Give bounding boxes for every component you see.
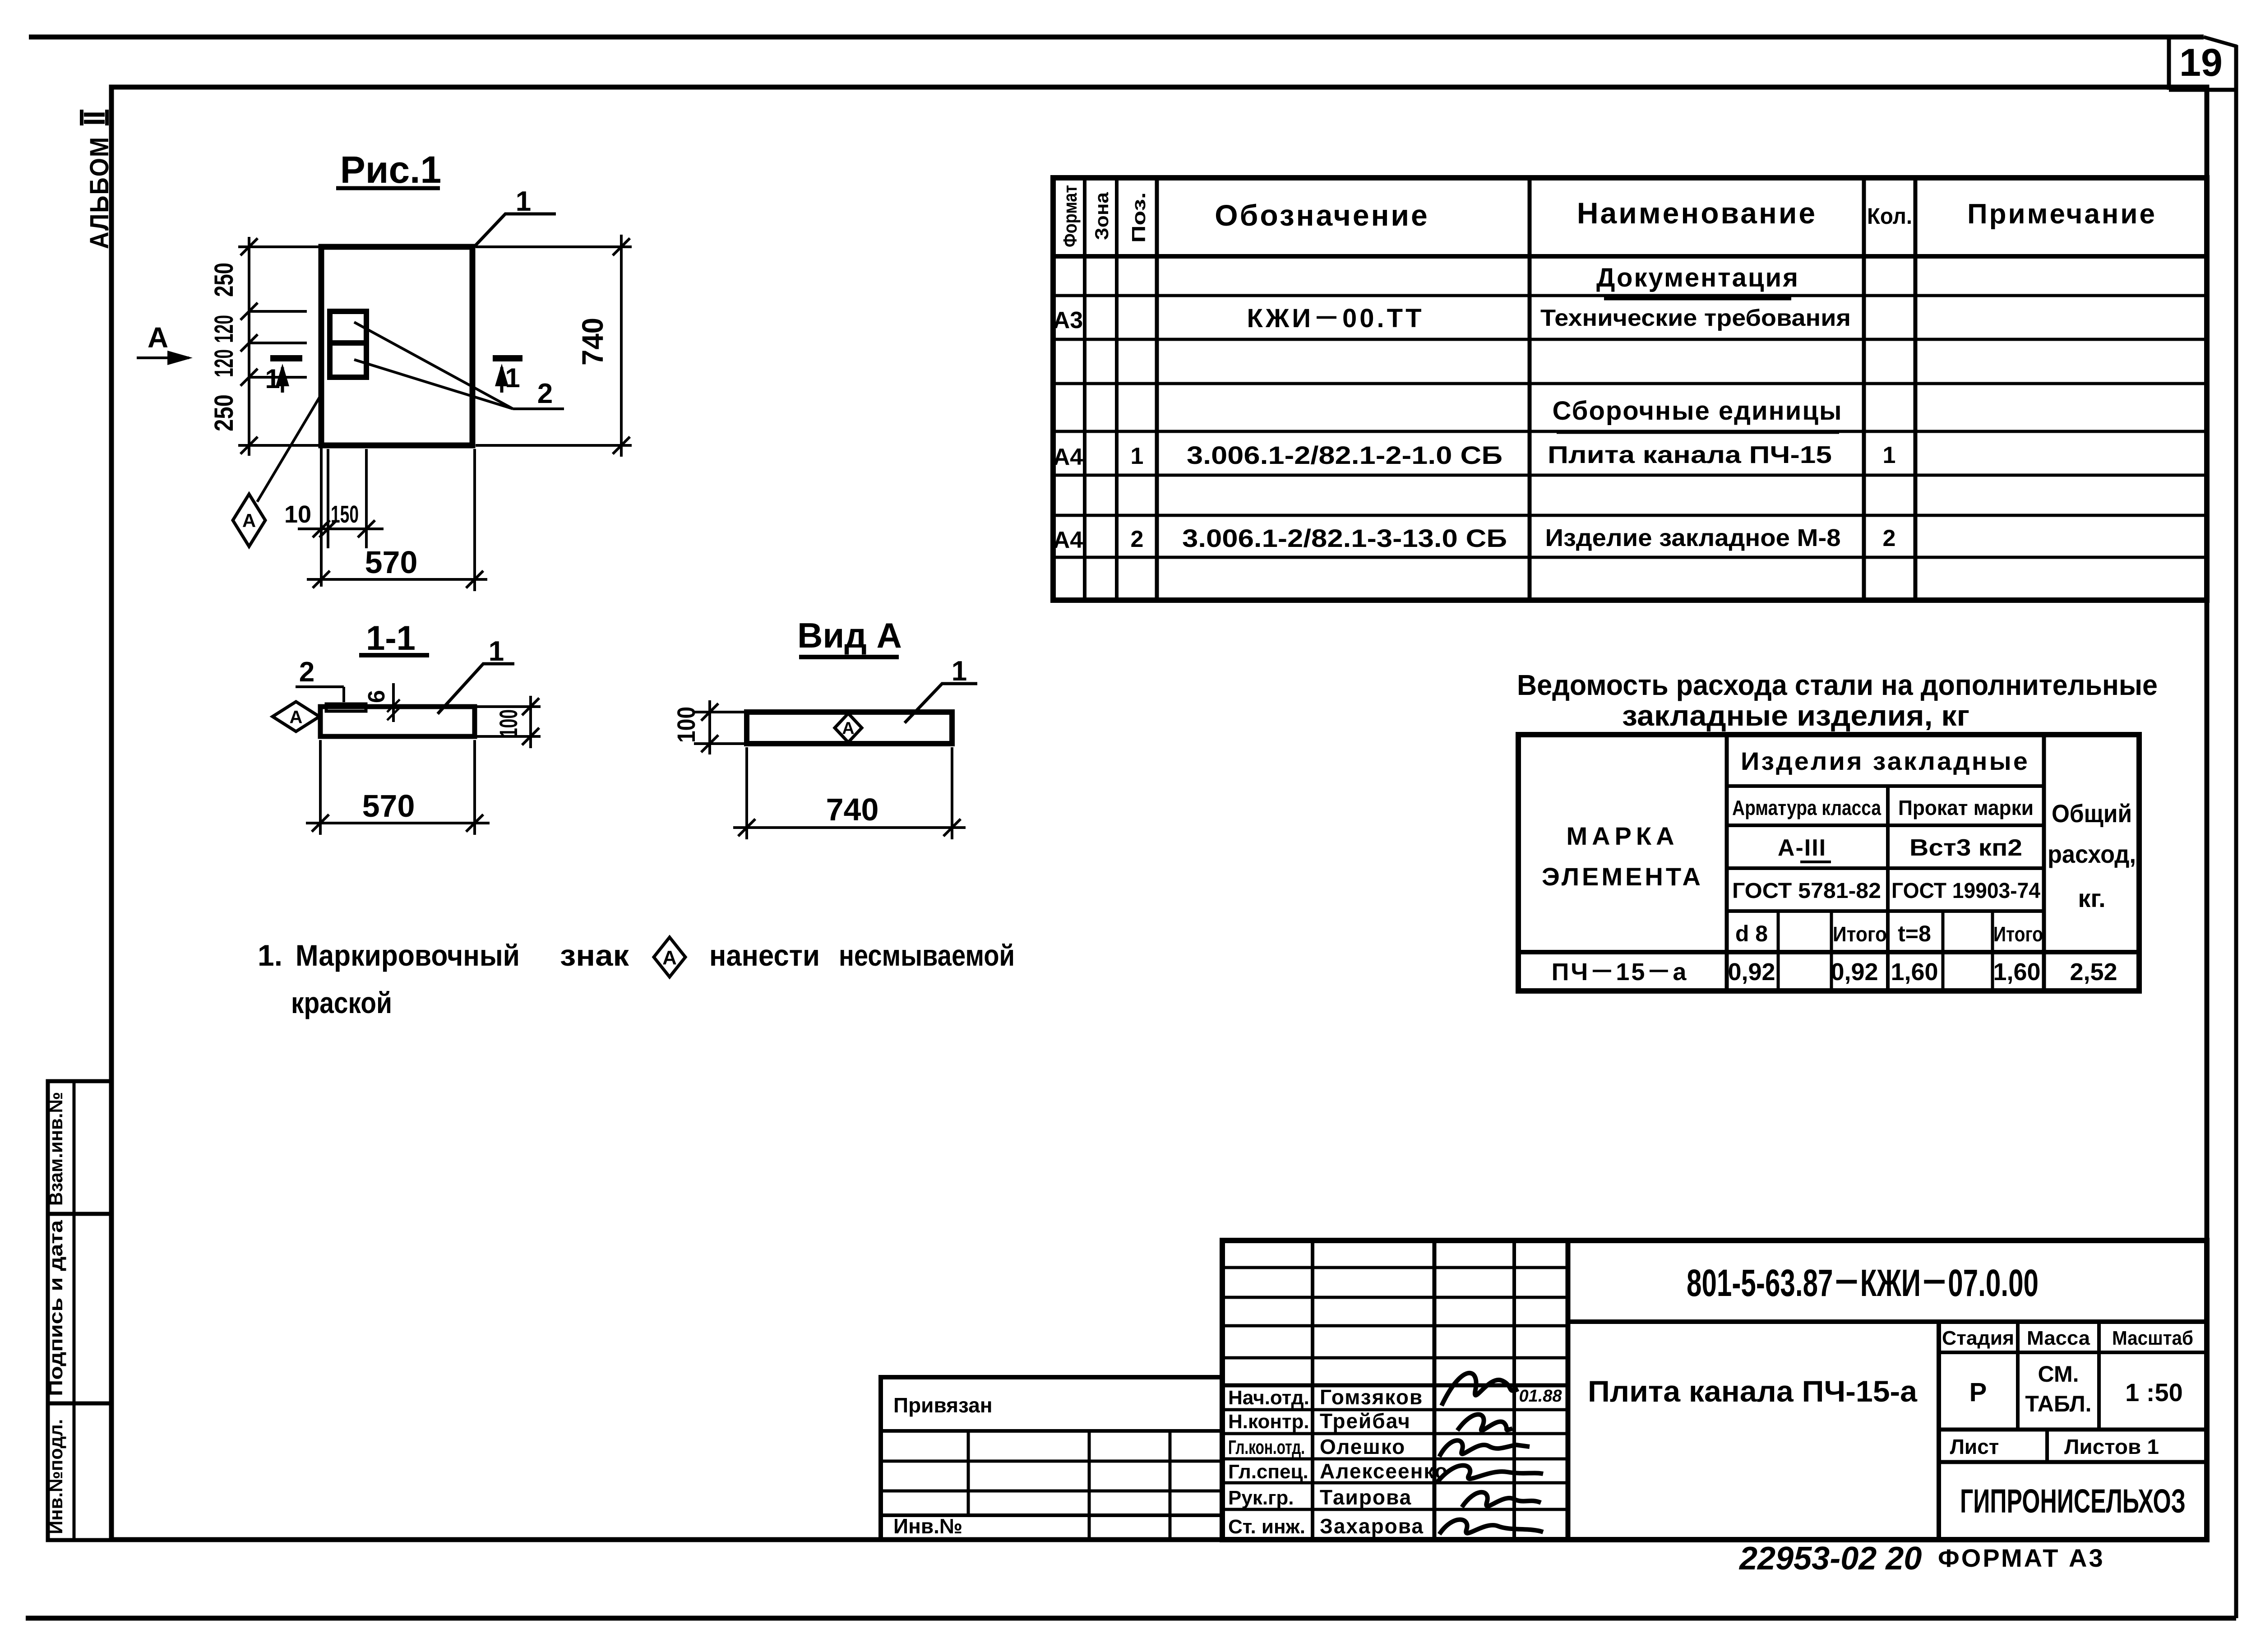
svg-text:Листов 1: Листов 1 — [2064, 1435, 2159, 1458]
svg-text:краской: краской — [291, 986, 392, 1019]
svg-text:Итого: Итого — [1833, 922, 1887, 946]
specification row line y=1235 — [1053, 556, 2207, 559]
steel table outer box — [1518, 735, 2139, 991]
svg-text:Ведомость расхода стали на доп: Ведомость расхода стали на дополнительны… — [1517, 669, 2158, 701]
svg-text:3.006.1-2/82.1-2-1.0 СБ: 3.006.1-2/82.1-2-1.0 СБ — [1187, 441, 1502, 469]
svg-text:Взам.инв.№: Взам.инв.№ — [45, 1092, 66, 1206]
svg-text:0,92: 0,92 — [1728, 958, 1775, 986]
marking sign diamond А (plan) — [233, 494, 265, 546]
svg-text:Трейбач: Трейбач — [1320, 1409, 1411, 1433]
specification row line y=850 — [1053, 382, 2207, 385]
svg-text:Н.контр.: Н.контр. — [1228, 1411, 1309, 1433]
svg-text:Наименование: Наименование — [1577, 196, 1817, 230]
extension line pocket left edge — [327, 449, 329, 548]
svg-text:ТАБЛ.: ТАБЛ. — [2025, 1391, 2091, 1416]
section cut mark right bar — [493, 355, 522, 361]
callout leader 1 (plan) — [472, 214, 556, 249]
svg-text:Арматура класса: Арматура класса — [1732, 796, 1881, 819]
extension line Вид А top-left — [694, 711, 745, 713]
divider under Подпись и дата box — [48, 1402, 111, 1406]
specification table outer box — [1053, 178, 2207, 600]
underline Документация — [1604, 297, 1791, 301]
svg-text:Гомзяков: Гомзяков — [1320, 1385, 1423, 1409]
svg-text:А: А — [242, 510, 256, 531]
steel col t=8| — [1942, 911, 1945, 991]
marking sign diamond А (section) — [273, 702, 319, 731]
svg-text:1-1: 1-1 — [366, 619, 416, 657]
plate section bar (1-1) — [320, 707, 475, 736]
vertical dimension line (left chain) — [248, 237, 250, 456]
svg-text:1: 1 — [265, 364, 280, 394]
svg-text:Алексеенко: Алексеенко — [1320, 1459, 1448, 1483]
svg-text:2: 2 — [1131, 526, 1144, 552]
svg-text:А4: А4 — [1053, 444, 1083, 470]
sheet right cut rule — [2234, 45, 2238, 1618]
svg-text:Кол.: Кол. — [1867, 204, 1912, 229]
svg-text:2: 2 — [1883, 525, 1896, 551]
svg-text:Прокат марки: Прокат марки — [1898, 796, 2034, 819]
svg-text:1.: 1. — [258, 939, 282, 972]
svg-text:1: 1 — [489, 636, 504, 667]
svg-text:ГОСТ 19903-74: ГОСТ 19903-74 — [1891, 879, 2040, 903]
page number box left edge — [2167, 37, 2171, 90]
pocket divider — [330, 340, 366, 346]
extension line Вид А bottom-left — [694, 742, 745, 745]
signature squiggle Трейбач — [1457, 1415, 1512, 1431]
svg-text:6: 6 — [364, 690, 390, 703]
svg-text:1: 1 — [952, 656, 967, 687]
extension line section top-right — [476, 705, 541, 708]
sheet top rule — [29, 35, 2204, 40]
signature squiggle Таирова — [1462, 1492, 1541, 1507]
svg-text:ЭЛЕМЕНТА: ЭЛЕМЕНТА — [1542, 862, 1703, 891]
svg-text:закладные изделия, кг: закладные изделия, кг — [1622, 699, 1969, 732]
svg-text:Нач.отд.: Нач.отд. — [1228, 1387, 1309, 1409]
extension line bottom-left corner — [238, 444, 319, 447]
svg-text:Сборочные единицы: Сборочные единицы — [1553, 396, 1843, 426]
svg-text:1,60: 1,60 — [1891, 958, 1938, 986]
svg-text:22953-02 20: 22953-02 20 — [1738, 1541, 1922, 1577]
svg-text:570: 570 — [362, 788, 415, 824]
svg-text:ГИПРОНИСЕЛЬХОЗ: ГИПРОНИСЕЛЬХОЗ — [1960, 1482, 2186, 1520]
svg-text:2,52: 2,52 — [2070, 958, 2117, 986]
svg-text:Гл.кон.отд.: Гл.кон.отд. — [1228, 1436, 1305, 1458]
specification table column lines — [1083, 178, 1086, 600]
left margin stamp column divider — [73, 1081, 76, 1540]
callout leader 1 (section) — [438, 664, 514, 714]
svg-text:100: 100 — [494, 709, 522, 737]
svg-text:150: 150 — [331, 501, 359, 528]
top rule slant into page-number box — [2204, 37, 2237, 46]
extension line plate bottom-left corner — [320, 445, 323, 587]
svg-text:1,60: 1,60 — [1993, 958, 2040, 986]
svg-text:А-III: А-III — [1778, 835, 1826, 861]
note diamond А — [654, 937, 685, 977]
svg-text:КЖИ－00.ТТ: КЖИ－00.ТТ — [1247, 304, 1424, 333]
extension line pocket right edge — [365, 449, 368, 548]
extension line pocket bottom — [249, 376, 307, 379]
svg-text:АЛЬБОМ: АЛЬБОМ — [85, 136, 114, 249]
svg-text:Технические требования: Технические требования — [1540, 305, 1851, 331]
steel line under Изделия закладные — [1727, 784, 2044, 788]
signature squiggle Гомзяков — [1442, 1373, 1518, 1406]
svg-text:2: 2 — [299, 657, 314, 688]
section mark arrow (left) — [281, 367, 284, 393]
svg-text:несмываемой: несмываемой — [839, 939, 1015, 972]
leader from diamond to plate edge — [257, 394, 321, 502]
extension line section bottom-right — [476, 735, 541, 738]
svg-text:ГОСТ 5781-82: ГОСТ 5781-82 — [1732, 879, 1881, 903]
svg-text:3.006.1-2/82.1-3-13.0 СБ: 3.006.1-2/82.1-3-13.0 СБ — [1182, 524, 1507, 552]
svg-text:расход,: расход, — [2048, 840, 2136, 868]
steel col line Арматура|Прокат — [1886, 786, 1890, 991]
svg-text:Р: Р — [1969, 1378, 1987, 1407]
svg-text:Обозначение: Обозначение — [1215, 199, 1429, 232]
steel line under ГОСТ row — [1727, 909, 2044, 913]
svg-text:Формат: Формат — [1059, 185, 1081, 247]
svg-text:19: 19 — [2179, 41, 2223, 84]
specification row line y=1142 — [1053, 514, 2207, 517]
title block right part lines — [1568, 1319, 2207, 1324]
svg-text:А3: А3 — [1053, 307, 1083, 333]
signature squiggle Олешко — [1439, 1440, 1530, 1457]
dimension line 570 (section) — [306, 822, 490, 824]
dimension line 100 (Вид А) — [708, 700, 711, 754]
dim 6 line — [392, 683, 395, 722]
svg-text:Лист: Лист — [1950, 1435, 1999, 1458]
svg-text:А: А — [290, 707, 303, 727]
extension line section bottom-right 2 — [473, 740, 476, 835]
svg-text:Масса: Масса — [2027, 1327, 2090, 1349]
svg-text:ПЧ－15－а: ПЧ－15－а — [1552, 958, 1688, 986]
underline of Вид А — [799, 655, 899, 659]
extension line Вид А bottom-right — [951, 747, 953, 839]
view direction arrow — [137, 356, 189, 359]
svg-text:570: 570 — [365, 545, 418, 580]
dimension line 10/150 — [298, 528, 384, 530]
svg-text:d 8: d 8 — [1735, 921, 1768, 946]
svg-text:Итого: Итого — [1993, 922, 2043, 946]
svg-text:Олешко: Олешко — [1320, 1435, 1405, 1458]
marking sign diamond А (Вид А) — [835, 713, 862, 742]
svg-text:1: 1 — [505, 363, 520, 393]
svg-text:Зона: Зона — [1091, 192, 1112, 240]
embedded item pocket (double box) — [330, 311, 366, 377]
svg-text:Общий: Общий — [2052, 799, 2132, 828]
svg-text:t=8: t=8 — [1898, 921, 1931, 946]
section cut mark left bar — [270, 355, 302, 361]
svg-text:А4: А4 — [1053, 527, 1083, 553]
svg-text:Документация: Документация — [1596, 263, 1799, 292]
embedded strip M-8 in section — [326, 704, 366, 711]
svg-text:0,92: 0,92 — [1831, 958, 1878, 986]
svg-text:А: А — [148, 321, 168, 354]
svg-text:А: А — [662, 947, 677, 969]
svg-text:01.88: 01.88 — [1519, 1387, 1562, 1406]
svg-text:Инв.№: Инв.№ — [893, 1514, 962, 1538]
svg-text:МАРКА: МАРКА — [1566, 822, 1678, 850]
svg-text:Вст3 кп2: Вст3 кп2 — [1909, 835, 2022, 861]
callout 2 leader horizontal — [296, 685, 344, 688]
svg-text:Плита канала ПЧ-15-а: Плита канала ПЧ-15-а — [1588, 1374, 1918, 1408]
svg-text:120: 120 — [209, 315, 239, 343]
svg-text:250: 250 — [209, 394, 239, 431]
svg-text:Изделия закладные: Изделия закладные — [1741, 747, 2029, 775]
roman numeral II of АЛЬБОМ II — [80, 110, 83, 125]
extension line top-left corner — [238, 245, 319, 248]
svg-text:801-5-63.87－КЖИ－07.0.00: 801-5-63.87－КЖИ－07.0.00 — [1687, 1262, 2039, 1304]
plate elevation bar (Вид А) — [747, 712, 952, 744]
section mark arrow (right) — [500, 367, 504, 393]
svg-text:Рис.1: Рис.1 — [340, 148, 441, 191]
svg-text:Плита канала ПЧ-15: Плита канала ПЧ-15 — [1548, 441, 1832, 468]
underline Сборочные единицы — [1557, 431, 1839, 434]
svg-text:100: 100 — [672, 707, 700, 743]
vertical dimension line 740 — [620, 235, 623, 457]
extension line pocket top — [249, 310, 307, 313]
extension line top-right corner — [476, 245, 632, 248]
signature squiggle Захарова — [1439, 1520, 1543, 1534]
underline of Рис.1 — [336, 186, 440, 190]
svg-text:Изделие закладное М-8: Изделие закладное М-8 — [1545, 524, 1841, 551]
svg-text:740: 740 — [576, 318, 609, 366]
steel line under А-III/Вст3 — [1727, 866, 2044, 870]
sheet bottom rule — [26, 1616, 2236, 1621]
dimension line 740 (Вид А) — [733, 826, 966, 829]
svg-text:Захарова: Захарова — [1320, 1514, 1424, 1538]
steel line above data row — [1518, 950, 2139, 954]
page number box bottom — [2169, 88, 2236, 92]
svg-text:знак: знак — [560, 939, 629, 972]
dimension line 570 (plan) — [307, 578, 487, 581]
steel col line Марка|Изделия — [1725, 735, 1729, 991]
plate plan view outline (Рис.1) — [321, 247, 472, 445]
specification row line y=1053 — [1053, 474, 2207, 477]
extension line Вид А bottom-left 2 — [745, 747, 748, 839]
svg-text:А: А — [842, 719, 854, 738]
svg-text:Подпись и дата: Подпись и дата — [45, 1220, 66, 1396]
svg-text:Поз.: Поз. — [1128, 192, 1149, 243]
extension line section bottom-left — [319, 740, 322, 835]
svg-text:Стадия: Стадия — [1942, 1327, 2014, 1349]
dimension line 100 (section) — [529, 696, 532, 748]
svg-text:Привязан: Привязан — [893, 1393, 993, 1417]
underline of 1-1 — [359, 653, 429, 657]
svg-text:СМ.: СМ. — [2038, 1361, 2079, 1387]
specification row line y=752 — [1053, 338, 2207, 341]
steel col |Итого (1) — [1830, 911, 1833, 991]
steel col |Итого (2) — [1991, 911, 1994, 991]
svg-text:2: 2 — [537, 378, 553, 409]
attachment table (Привязан / Инв.№) — [881, 1377, 1222, 1540]
svg-text:Таирова: Таирова — [1320, 1485, 1412, 1509]
svg-text:1: 1 — [516, 186, 531, 217]
svg-text:1: 1 — [1883, 442, 1896, 468]
svg-text:Примечание: Примечание — [1967, 199, 2157, 230]
svg-text:Инв.№подл.: Инв.№подл. — [45, 1419, 66, 1534]
svg-text:10: 10 — [284, 501, 311, 528]
svg-text:Маркировочный: Маркировочный — [296, 939, 520, 972]
svg-text:250: 250 — [209, 263, 239, 297]
steel col d8| — [1777, 911, 1780, 991]
extension line bottom-right corner — [476, 444, 632, 447]
extension line pocket middle — [249, 342, 307, 344]
svg-text:кг.: кг. — [2078, 884, 2105, 912]
title block signature-part verticals — [1311, 1240, 1314, 1540]
svg-text:Рук.гр.: Рук.гр. — [1228, 1487, 1294, 1509]
svg-text:740: 740 — [826, 792, 879, 827]
specification header bottom line — [1053, 254, 2207, 259]
svg-text:Ст. инж.: Ст. инж. — [1228, 1516, 1305, 1538]
extension line plate bottom-right corner — [473, 449, 476, 591]
svg-text:Гл.спец.: Гл.спец. — [1228, 1461, 1308, 1483]
specification row line y=655 — [1053, 294, 2207, 297]
title block outer box — [1222, 1240, 2207, 1540]
svg-text:Вид А: Вид А — [797, 615, 902, 655]
svg-text:ФОРМАТ А3: ФОРМАТ А3 — [1938, 1544, 2105, 1572]
title block signature-part row lines — [1222, 1266, 1568, 1269]
callout 2 leader vertical — [342, 687, 345, 702]
callout leader 2 (plan, two lines from pocket) — [354, 322, 513, 409]
steel col line |Общий — [2042, 735, 2046, 991]
svg-text:Масштаб: Масштаб — [2112, 1327, 2193, 1349]
svg-text:1 :50: 1 :50 — [2125, 1378, 2183, 1407]
left margin stamp column outer box — [48, 1081, 111, 1540]
svg-text:нанести: нанести — [709, 939, 820, 972]
divider under Взам.инв.№ box — [48, 1212, 111, 1216]
specification row line y=956 — [1053, 430, 2207, 433]
callout leader 1 (Вид А) — [905, 684, 977, 723]
underline of III in А-III — [1800, 861, 1831, 863]
svg-text:1: 1 — [1131, 443, 1144, 469]
svg-text:120: 120 — [209, 349, 239, 377]
signature squiggle Алексеенко — [1437, 1466, 1543, 1483]
steel line under Арматура/Прокат — [1727, 824, 2044, 827]
